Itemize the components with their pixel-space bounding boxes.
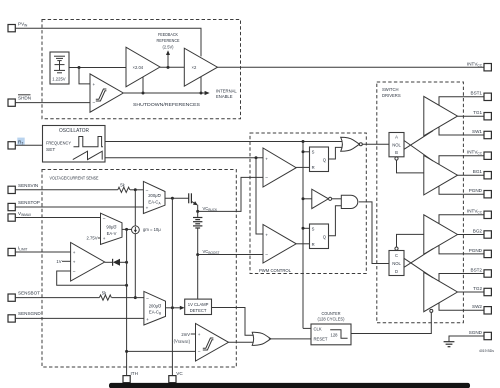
- svg-text:200μ℧: 200μ℧: [148, 193, 161, 198]
- wire 5k to EA-CB minus: [112, 297, 144, 299]
- wire SENSVIN to 5k: [15, 189, 118, 191]
- gate AND: [341, 195, 357, 208]
- amp x2: [184, 48, 217, 86]
- svg-text:×2.04: ×2.04: [133, 65, 144, 70]
- pin ILIMIT: [8, 245, 27, 255]
- node VCBUCK: [196, 210, 199, 213]
- wire OR output to counter RESET: [269, 338, 311, 340]
- pin SW1: [472, 129, 491, 139]
- dashed box SWITCH DRIVERS: [377, 82, 464, 323]
- svg-text:+: +: [265, 232, 268, 237]
- wire PGND D2: [439, 186, 484, 194]
- wire BST1: [439, 97, 484, 106]
- gate NOR: [341, 137, 363, 151]
- svg-text:NOL: NOL: [392, 261, 401, 266]
- svg-text:−: −: [73, 269, 76, 275]
- node dot under x2: [200, 92, 203, 95]
- wire EA-CA output to clamp FET gate: [165, 197, 189, 199]
- pin INTVCC 2: [467, 150, 491, 160]
- wire x2.04 output: [160, 66, 184, 68]
- exposed pad bar: [109, 383, 470, 388]
- pin SGND: [469, 330, 492, 340]
- wire clamp detect output to OR gate: [212, 308, 254, 336]
- wire rail gm source down to SENSBOT wire: [134, 234, 136, 298]
- node dot EA-CB output on VC rail: [171, 306, 174, 309]
- svg-text:R: R: [312, 242, 315, 247]
- svg-text:D: D: [395, 269, 398, 274]
- wire ILIMIT comparator feedback: [57, 271, 127, 285]
- pin PGND 2: [469, 248, 492, 258]
- svg-text:5k: 5k: [120, 183, 125, 188]
- current source gm: [132, 226, 162, 234]
- wire clock to inverter: [303, 198, 312, 200]
- comparator buck PWM: [263, 148, 296, 187]
- wire SHDN to comparator: [15, 102, 90, 104]
- comparator 2mV VSENSE: [196, 324, 229, 362]
- wire counter output to TG2 driver: [351, 312, 431, 333]
- pin PGND: [469, 188, 492, 198]
- wire INTVCC D2: [439, 156, 484, 165]
- svg-text:TG1: TG1: [473, 110, 482, 115]
- svg-text:+: +: [73, 250, 76, 255]
- wire EA-V output to gm source: [122, 228, 132, 230]
- comparator ILIMIT: [71, 243, 105, 282]
- svg-text:S: S: [312, 227, 315, 232]
- wire ILIMIT to comparator +: [15, 251, 70, 253]
- driver D3 BG2: [424, 215, 458, 254]
- wire PVIN to x2 amp: [15, 28, 201, 56]
- svg-text:CLK: CLK: [314, 326, 322, 331]
- wire TG2: [458, 291, 485, 293]
- wire ITH rail: [126, 229, 128, 375]
- svg-text:VOLTAGE/CURRENT SENSE: VOLTAGE/CURRENT SENSE: [50, 175, 99, 180]
- dashed box VOLTAGE/CURRENT SENSE: [42, 170, 236, 368]
- wire clock rail: [302, 142, 304, 329]
- resistor 5k (SENSVIN): [118, 183, 130, 193]
- node VCBOOST: [196, 253, 199, 256]
- svg-text:REFERENCE: REFERENCE: [157, 38, 180, 43]
- wire RT to oscillator: [15, 144, 42, 146]
- wire oscillator clock output to NOR: [105, 141, 342, 143]
- wire NOL C out to driver TG2 (cross): [404, 258, 433, 278]
- svg-text:−: −: [146, 296, 149, 302]
- svg-text:INTVCC: INTVCC: [467, 150, 483, 156]
- gate OR fault: [252, 332, 271, 345]
- wire SW2: [439, 303, 484, 310]
- svg-text:+: +: [198, 332, 201, 337]
- wire x2 output to INTVCC pin: [218, 66, 485, 68]
- transistor clamp on VCBUCK: [189, 193, 198, 211]
- pin TG1: [473, 110, 491, 120]
- svg-text:TG2: TG2: [473, 286, 482, 291]
- wire PGND D3: [439, 246, 484, 254]
- dashed box PWM CONTROL: [250, 133, 366, 274]
- pin TG2: [473, 286, 491, 296]
- svg-text:PVIN: PVIN: [18, 22, 28, 28]
- pin SENSBOT: [8, 290, 40, 301]
- wire SENSBOT to 5k: [15, 297, 99, 299]
- wire VCBOOST to boost comparator: [198, 254, 263, 256]
- wire BG1: [458, 174, 485, 176]
- latch SR buck: [310, 147, 329, 172]
- wire BST2: [439, 274, 484, 282]
- svg-text:ILIMIT: ILIMIT: [18, 245, 27, 251]
- node dot on ITH rail: [125, 350, 128, 353]
- svg-text:+: +: [73, 259, 76, 264]
- svg-text:1V CLAMP: 1V CLAMP: [188, 302, 209, 307]
- wire rail from 5k node down to gm source: [134, 190, 136, 226]
- svg-text:COUNTER: COUNTER: [322, 311, 341, 316]
- pin SW2: [472, 304, 491, 314]
- node dot ramp branch: [255, 156, 258, 159]
- svg-text:+: +: [93, 82, 96, 87]
- pin BG1: [473, 169, 492, 179]
- svg-text:INTERNAL: INTERNAL: [216, 89, 237, 94]
- wire AND output to NOL C: [359, 202, 389, 264]
- node dot S boost: [302, 227, 305, 230]
- wire buck comparator to latch R: [296, 166, 309, 168]
- svg-text:BG1: BG1: [473, 169, 483, 174]
- wire NOL C bubble to BG2 driver: [397, 234, 424, 247]
- node dot feedback ref: [167, 66, 170, 69]
- svg-text:1.225V: 1.225V: [52, 77, 65, 82]
- wire NOL A out to driver TG1 (cross): [404, 141, 433, 162]
- wire shutdown comparator output rail: [123, 92, 206, 94]
- wire comparator output to diode: [105, 261, 113, 263]
- svg-text:+: +: [146, 206, 149, 211]
- wire NOL B bubble to BG1 driver: [397, 160, 424, 173]
- node dot under x2.04: [142, 92, 145, 95]
- wire ramp branch to boost comparator +: [256, 158, 263, 234]
- pin SENSTOP: [8, 200, 40, 211]
- svg-text:SENSGND: SENSGND: [18, 311, 41, 316]
- diode to ITH rail: [113, 259, 127, 266]
- svg-text:NOL: NOL: [392, 142, 401, 147]
- resistor 5k (SENSBOT): [99, 290, 111, 300]
- svg-text:PGND: PGND: [469, 188, 483, 193]
- pin INTVCC 3: [467, 209, 491, 219]
- node dot rail meets SENSBOT wire: [134, 296, 137, 299]
- svg-text:(VSENSE): (VSENSE): [174, 338, 191, 344]
- svg-text:2mV: 2mV: [181, 332, 190, 337]
- reference box 1.225V: [50, 52, 69, 84]
- svg-text:ENABLE: ENABLE: [216, 94, 233, 99]
- node dot EA-V output / ITH rail top: [125, 228, 128, 231]
- svg-text:SET: SET: [46, 147, 55, 153]
- wire SENSGND to EA-CB +: [15, 317, 144, 319]
- svg-text:PWM CONTROL: PWM CONTROL: [259, 268, 291, 273]
- node dot feedback on ITH rail: [125, 284, 128, 287]
- comparator boost PWM: [263, 225, 296, 264]
- svg-text:−: −: [198, 350, 201, 356]
- svg-text:−: −: [103, 216, 106, 222]
- pin SENSGND: [8, 311, 41, 322]
- svg-text:5k: 5k: [102, 290, 107, 295]
- node dot diode on ITH rail: [125, 261, 128, 264]
- svg-text:VINMAX: VINMAX: [18, 211, 32, 217]
- svg-text:SHDN: SHDN: [18, 96, 31, 101]
- svg-text:(2.5V): (2.5V): [163, 45, 175, 50]
- pin BST1: [471, 91, 492, 101]
- wire INTVCC D3: [439, 215, 484, 224]
- svg-text:−: −: [93, 101, 96, 107]
- svg-text:SW1: SW1: [472, 129, 482, 134]
- pin SHDN: [8, 95, 31, 107]
- wire inverter to AND: [332, 198, 342, 200]
- svg-text:BST1: BST1: [471, 91, 483, 96]
- svg-text:gm = 10μ: gm = 10μ: [143, 227, 161, 232]
- svg-text:128: 128: [331, 332, 339, 337]
- dashed box SHUTDOWN/REFERENCES: [42, 20, 241, 119]
- svg-text:DRIVERS: DRIVERS: [382, 93, 401, 98]
- wire boost comparator to latch R: [296, 243, 309, 245]
- latch SR boost: [310, 224, 329, 249]
- pin VC: [169, 371, 184, 382]
- internal enable arrow: [205, 91, 210, 95]
- node dot ref output: [78, 66, 81, 69]
- svg-text:BG2: BG2: [473, 228, 483, 233]
- driver D1 TG1: [424, 96, 458, 135]
- wire 5k to EA-CA minus: [130, 189, 143, 191]
- node dot S buck: [302, 150, 305, 153]
- wire branch to x2.04: [142, 77, 144, 93]
- wire clock to latch S: [303, 151, 310, 153]
- svg-text:90μ℧: 90μ℧: [106, 225, 116, 230]
- op-amp EA-V: [101, 213, 123, 244]
- battery offset stack: [193, 211, 202, 254]
- pin ITH: [123, 371, 138, 382]
- svg-text:BST2: BST2: [471, 267, 483, 272]
- svg-text:EA-CB: EA-CB: [149, 310, 161, 316]
- inverter: [312, 189, 332, 208]
- svg-text:FREQUENCY: FREQUENCY: [46, 141, 72, 147]
- svg-text:VC: VC: [176, 371, 183, 376]
- arrowhead into clamp box: [180, 306, 185, 310]
- wire VCBOOST down to 1V clamp detect: [197, 255, 199, 300]
- svg-text:A: A: [395, 135, 398, 140]
- bubble NOL B inverted output: [395, 157, 398, 160]
- svg-text:SENSVIN: SENSVIN: [18, 183, 38, 188]
- wire SENSTOP to EA-CA +: [15, 206, 143, 208]
- oscillator box: [43, 126, 106, 163]
- svg-text:OSCILLATOR: OSCILLATOR: [59, 128, 89, 134]
- wire NOL D out to driver BG2 (cross): [404, 249, 433, 268]
- svg-text:1V: 1V: [56, 259, 61, 264]
- pin PVIN: [8, 22, 28, 32]
- wire VC rail: [171, 198, 173, 375]
- svg-text:SENSBOT: SENSBOT: [18, 290, 40, 295]
- svg-text:200μ℧: 200μ℧: [149, 303, 162, 308]
- block 1V CLAMP DETECT: [185, 299, 212, 314]
- wire 2mV comparator output to OR: [229, 341, 254, 343]
- svg-text:×2: ×2: [192, 65, 197, 70]
- svg-text:PGND: PGND: [469, 248, 483, 253]
- node dot 5k junction: [134, 188, 137, 191]
- svg-text:INTVCC: INTVCC: [467, 209, 483, 215]
- svg-text:−: −: [265, 176, 268, 182]
- svg-text:DETECT: DETECT: [190, 308, 207, 313]
- svg-text:B: B: [395, 150, 398, 155]
- feedback reference arrow: [157, 32, 180, 68]
- bubble NOL C inverted output: [395, 247, 398, 250]
- svg-text:R: R: [312, 165, 315, 170]
- wire BG2: [458, 234, 485, 236]
- svg-text:+: +: [265, 156, 268, 161]
- svg-text:+: +: [103, 236, 106, 241]
- svg-text:+: +: [146, 317, 149, 322]
- svg-text:SWITCH: SWITCH: [382, 87, 399, 92]
- svg-text:RESET: RESET: [314, 337, 328, 342]
- wire VINMAX to EA-V -: [15, 217, 100, 219]
- svg-text:S: S: [312, 150, 315, 155]
- wire NOL B out to driver SW node (cross): [404, 131, 433, 150]
- pin BG2: [473, 228, 492, 238]
- svg-text:2.75V: 2.75V: [87, 236, 98, 241]
- wire TG1: [458, 115, 485, 117]
- pin VINMAX: [8, 211, 32, 221]
- svg-text:4019 BDs: 4019 BDs: [479, 349, 494, 353]
- node dot inverter tap: [302, 197, 305, 200]
- driver D2 BG1: [424, 156, 458, 195]
- block COUNTER 128 CYCLES: [311, 311, 351, 345]
- svg-text:EA-CA: EA-CA: [148, 199, 161, 205]
- node dot clock rail top: [302, 140, 305, 143]
- svg-text:INTVCC: INTVCC: [467, 61, 483, 67]
- wire clock rail to counter CLK: [303, 327, 311, 329]
- comparator U-SHDN with hysteresis: [90, 74, 123, 112]
- wire oscillator ramp output: [105, 157, 263, 159]
- ground SGND: [444, 336, 484, 347]
- block NOL C/D: [389, 251, 404, 276]
- svg-text:EA-V: EA-V: [107, 231, 117, 236]
- svg-text:FEEDBACK: FEEDBACK: [158, 32, 178, 37]
- amp x2.04: [126, 47, 160, 87]
- pin RT: [8, 138, 25, 149]
- svg-text:−: −: [265, 252, 268, 258]
- pin BST2: [471, 267, 492, 277]
- wire ref to comparator +: [79, 68, 90, 84]
- svg-text:SENSTOP: SENSTOP: [18, 200, 40, 205]
- wire EA-CB output to 1V clamp detect: [166, 307, 182, 309]
- bubble counter into driver D4: [430, 309, 433, 312]
- op-amp EA-CB: [144, 291, 166, 325]
- wire branch to x2: [200, 77, 202, 94]
- svg-text:SGND: SGND: [469, 330, 483, 335]
- wire ITH rail to 2mV comparator minus: [127, 350, 196, 352]
- svg-text:(128 CYCLES): (128 CYCLES): [318, 317, 346, 322]
- svg-text:SW2: SW2: [472, 304, 482, 309]
- block NOL A/B: [389, 133, 404, 157]
- wire SW1: [439, 127, 484, 135]
- pin INTVCC top: [467, 61, 491, 71]
- wire latch Q to NOR: [329, 147, 342, 159]
- svg-text:C: C: [395, 253, 398, 258]
- wire reference output: [69, 67, 126, 69]
- wire clock to latch S boost: [303, 227, 310, 229]
- wire NOR output to NOL A: [362, 143, 389, 145]
- wire VCBUCK to buck comparator: [198, 177, 263, 211]
- svg-text:SHUTDOWN/REFERENCES: SHUTDOWN/REFERENCES: [133, 102, 200, 107]
- wire latch Q boost to AND: [329, 206, 342, 236]
- node dot EA-CA output / VC rail top: [171, 197, 174, 200]
- svg-text:ITH: ITH: [131, 371, 138, 376]
- driver D4 TG2: [424, 272, 458, 311]
- pin SENSVIN: [8, 183, 38, 194]
- op-amp EA-CA: [143, 181, 165, 213]
